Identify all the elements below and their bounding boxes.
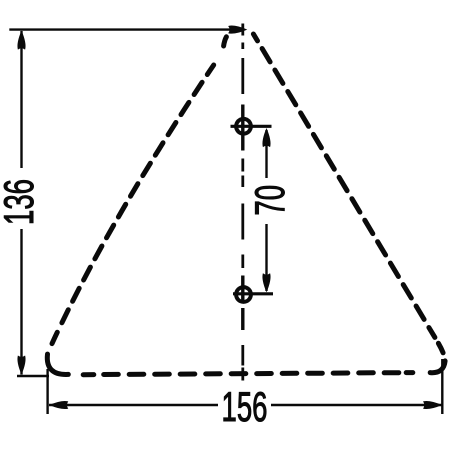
svg-text:70: 70	[246, 185, 293, 216]
svg-text:156: 156	[222, 383, 268, 430]
svg-text:136: 136	[0, 179, 42, 225]
